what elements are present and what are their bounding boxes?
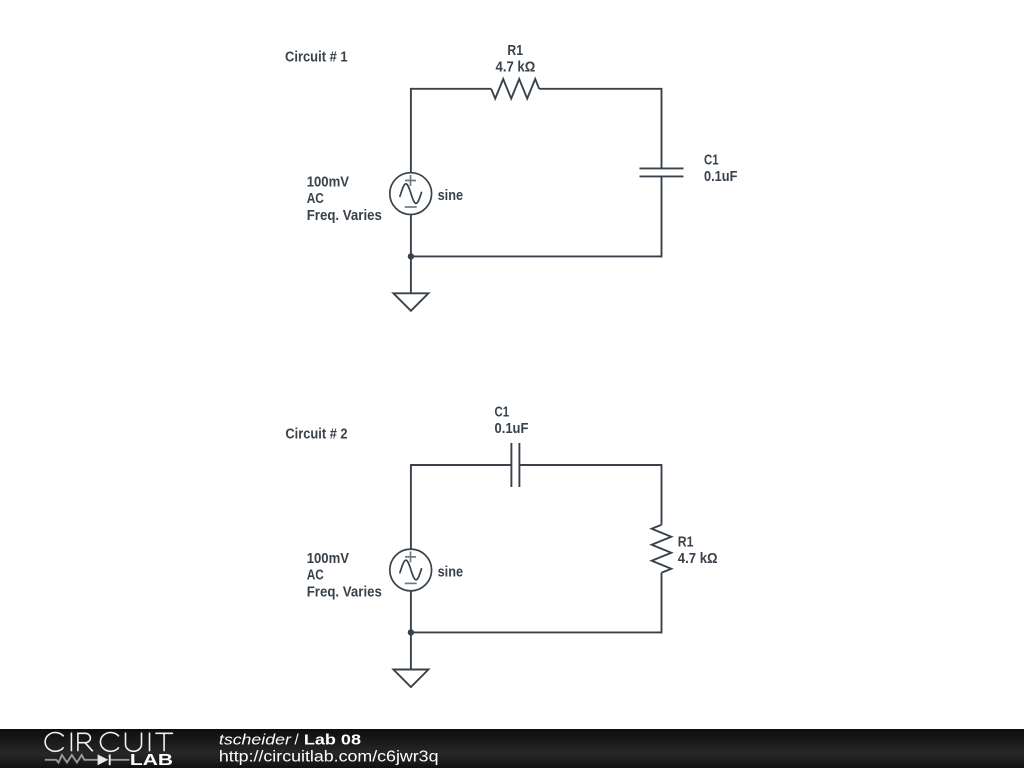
svg-text:4.7 kΩ: 4.7 kΩ: [678, 551, 718, 567]
svg-text:100mV: 100mV: [307, 175, 350, 191]
svg-text:http://circuitlab.com/c6jwr3q: http://circuitlab.com/c6jwr3q: [219, 749, 439, 766]
CircuitLab logo diode bar: [109, 754, 111, 765]
ground stem wire: [410, 256, 412, 293]
voltage source V1 sine wave: [400, 560, 422, 580]
voltage source V1 sine wave: [400, 184, 422, 204]
wire left rail circuit 2: [410, 464, 412, 549]
ground triangle: [393, 670, 428, 688]
svg-text:Lab 08: Lab 08: [304, 731, 361, 748]
CircuitLab logo letter I: [70, 733, 72, 752]
svg-text:Circuit # 1: Circuit # 1: [285, 50, 348, 66]
svg-text:C1: C1: [704, 152, 719, 168]
voltage source V1 minus sign: [405, 582, 417, 584]
wire source bottom lead circuit 1: [410, 214, 412, 256]
wire right rail upper circuit 1: [661, 88, 663, 169]
resistor R1 circuit 2: [652, 525, 672, 573]
CircuitLab logo resistor zigzag wire: [45, 755, 130, 763]
svg-text:Freq. Varies: Freq. Varies: [307, 584, 382, 600]
svg-text:C1: C1: [495, 404, 510, 420]
ground triangle: [393, 293, 428, 311]
svg-text:4.7 kΩ: 4.7 kΩ: [496, 59, 536, 75]
svg-text:0.1uF: 0.1uF: [704, 169, 738, 185]
wire bottom rail circuit 1: [411, 255, 662, 257]
svg-text:R1: R1: [507, 43, 523, 59]
svg-text:100mV: 100mV: [307, 551, 350, 567]
svg-text:0.1uF: 0.1uF: [495, 421, 529, 437]
voltage source V1 plus sign: [405, 175, 416, 186]
svg-text:R1: R1: [678, 535, 694, 551]
wire bottom rail circuit 2: [411, 631, 662, 633]
CircuitLab logo letter C 2: [100, 733, 118, 752]
svg-text:sine: sine: [438, 564, 464, 580]
wire left rail upper circuit 1: [410, 88, 412, 173]
voltage source V1 minus sign: [405, 206, 417, 208]
wire top-left segment circuit 2: [411, 464, 512, 466]
wire right rail lower circuit 2: [660, 573, 662, 633]
voltage source V1 circle: [390, 173, 432, 215]
ground stem wire: [410, 632, 412, 669]
CircuitLab logo diode triangle: [98, 754, 109, 765]
svg-text:AC: AC: [307, 191, 325, 207]
node junction dot circuit 1: [408, 253, 414, 259]
wire right rail upper circuit 2: [661, 464, 663, 525]
CircuitLab logo letter C: [45, 733, 63, 752]
voltage source V1 circle: [390, 549, 432, 591]
wire top-right segment circuit 1: [539, 88, 661, 90]
capacitor C1 plates circuit 2: [511, 443, 519, 487]
wire source bottom lead circuit 2: [410, 591, 412, 633]
svg-text:Circuit # 2: Circuit # 2: [285, 426, 347, 442]
capacitor C1 circuit 1: [640, 168, 684, 176]
CircuitLab logo letter U: [126, 733, 142, 752]
resistor R1 circuit 1: [491, 79, 539, 99]
svg-text:LAB: LAB: [130, 752, 173, 768]
svg-text:Freq. Varies: Freq. Varies: [307, 208, 382, 224]
node junction dot circuit 2: [408, 629, 414, 635]
wire top-right segment circuit 2: [519, 464, 661, 466]
wire right rail lower circuit 1: [660, 176, 662, 256]
svg-text:AC: AC: [307, 568, 325, 584]
CircuitLab logo letter I 2: [149, 733, 151, 752]
svg-text:sine: sine: [438, 188, 464, 204]
CircuitLab logo letter T: [155, 733, 173, 751]
wire top-left segment circuit 1: [411, 88, 491, 90]
voltage source V1 plus sign: [405, 551, 416, 562]
CircuitLab logo letter R: [78, 733, 93, 751]
svg-text:tscheider: tscheider: [219, 731, 292, 748]
